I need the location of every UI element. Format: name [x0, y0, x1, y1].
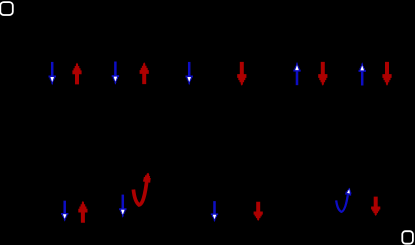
spin arrow T7 (blue, up) [293, 62, 300, 85]
spin arrow T6 (red, down) [237, 62, 246, 86]
curved flip arrow B4 (red, up-swoosh) [133, 172, 151, 205]
spin arrow T8 (red, down) [318, 62, 327, 86]
corner handle bottom-right (white rounded square) [402, 231, 413, 244]
spin arrow T10 (red, down) [382, 62, 391, 86]
spin arrow B2 (red, up) [78, 201, 87, 223]
spin arrow T9 (blue, up) [359, 62, 366, 85]
spin arrow B1 (blue, down) [61, 201, 68, 222]
spin arrow T2 (red, up) [72, 63, 81, 85]
spin arrow B3 (blue, down) [119, 195, 126, 218]
spin arrow T4 (red, up) [140, 62, 149, 84]
spin arrow B8 (red, down) [371, 197, 380, 216]
spin arrow B5 (blue, down) [211, 201, 218, 222]
spin arrow T5 (blue, down) [186, 62, 193, 85]
corner handle top-left (white rounded square) [0, 2, 13, 15]
spin arrow T1 (blue, down) [49, 62, 56, 85]
curved flip arrow B7 (blue, up-swoosh) [336, 187, 353, 212]
spin arrow B6 (red, down) [254, 202, 263, 221]
spin arrow T3 (blue, down) [112, 62, 119, 85]
